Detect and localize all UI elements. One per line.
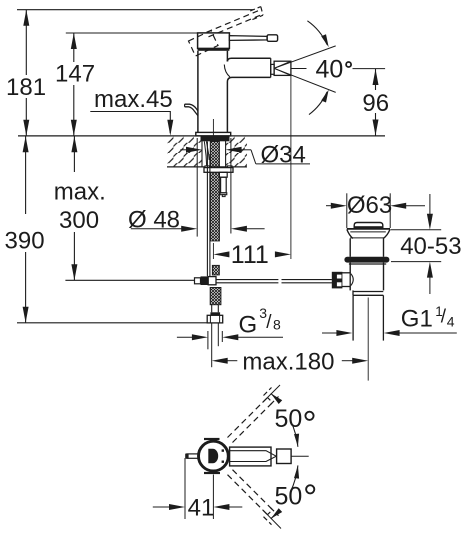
drain flange inner line 2 <box>350 237 383 239</box>
svg-text:4: 4 <box>447 314 455 330</box>
dimension 48 extension left <box>196 138 198 237</box>
drain under-ring shoulder <box>349 263 386 265</box>
tee block dark <box>201 276 209 285</box>
faucet cap base bar <box>198 48 230 51</box>
50 down arc arrowhead at line <box>271 508 282 519</box>
pop-up rod top right segment <box>282 279 332 281</box>
svg-text:/: / <box>266 312 272 333</box>
G114 tail left <box>322 332 342 334</box>
fixing stud top <box>219 172 227 177</box>
top view pop-up stub bottom <box>186 457 198 459</box>
supply hose right wall <box>209 154 211 276</box>
faucet centerline lower segment <box>212 243 214 259</box>
drain tailpipe right <box>382 295 384 340</box>
dimension 181 arrow up <box>23 10 29 26</box>
aerator cross line lower <box>274 68 291 75</box>
hose end nut <box>207 315 223 323</box>
50 down arc inner segment <box>290 465 298 492</box>
svg-text:147: 147 <box>55 61 95 88</box>
drain plug cap bottom band <box>354 226 383 228</box>
dashed knob 50 up a <box>264 388 272 396</box>
dia63 tail left <box>326 205 336 207</box>
40 deg arc lower arrowhead <box>321 90 329 103</box>
hose lower thread <box>210 288 221 305</box>
max180 arrow left <box>212 358 228 364</box>
dashed lever 50 down line A <box>228 475 268 515</box>
top view pop-up stub end <box>185 454 188 459</box>
top view pop-up stub top <box>186 453 198 455</box>
dimension 390 line lower <box>25 252 27 323</box>
drain body left lower <box>349 263 351 273</box>
dimension 181 line upper <box>25 10 27 75</box>
50 up arc arrowhead at lever <box>294 434 299 447</box>
svg-text:G: G <box>239 312 258 339</box>
top view flat bottom <box>204 472 220 474</box>
50 up arc inner segment <box>290 420 298 447</box>
hose upper nut <box>212 265 219 275</box>
dimension 96 arrow down <box>373 120 379 136</box>
dimension hole dia 34 tail left <box>180 149 191 151</box>
50 down arc arrowhead at lever <box>294 465 299 478</box>
dia34 leader bend <box>251 150 256 164</box>
hose end nut facet right <box>219 315 221 323</box>
G114 arrow left <box>336 330 352 336</box>
G114 tail right <box>395 332 457 334</box>
dimension 390 line upper <box>25 136 27 214</box>
dia63 tail right <box>401 205 425 207</box>
50 up arc arrowhead at line <box>271 393 282 404</box>
drain flange inner line 1 <box>350 231 386 233</box>
countertop bottom line <box>167 166 247 168</box>
faucet centerline <box>212 119 214 136</box>
dimension 390 arrow up <box>23 136 29 152</box>
dimension 96 line lower <box>375 113 377 136</box>
svg-text:max.: max. <box>54 179 106 206</box>
hose end nut facet left <box>209 315 211 323</box>
svg-text:181: 181 <box>6 74 46 101</box>
drain flange right curve <box>383 230 390 239</box>
threaded shank <box>210 142 219 241</box>
svg-text:40: 40 <box>316 55 344 83</box>
spray axis line <box>291 68 307 70</box>
hose lower pipe left <box>211 305 213 313</box>
dia63 arrow right <box>390 203 406 209</box>
hole right edge <box>225 136 227 167</box>
G38 extension left <box>207 331 209 349</box>
pipe below nut right <box>217 323 219 346</box>
dimension 48 extension right <box>230 138 232 234</box>
aerator step ring <box>271 64 274 74</box>
4053 arrow down <box>427 214 433 230</box>
drain plug cap <box>354 223 383 229</box>
dimension 48 arrow left <box>181 226 197 232</box>
svg-text:8: 8 <box>273 317 281 333</box>
faucet cap <box>198 33 230 49</box>
dimension max.300 arrow up <box>71 136 77 152</box>
spray line 20 deg up <box>274 46 336 68</box>
dashed lever knob end <box>261 7 263 16</box>
countertop hatch right <box>226 136 247 167</box>
drain flange left curve <box>347 230 353 239</box>
cartridge D shape <box>208 449 218 464</box>
top view lever centerline <box>291 455 309 457</box>
svg-text:Ø63: Ø63 <box>347 192 392 219</box>
svg-text:Ø34: Ø34 <box>261 142 306 169</box>
drain flange top <box>347 228 390 230</box>
G114 arrow right <box>384 330 400 336</box>
svg-text:96: 96 <box>362 90 389 117</box>
top view lever knob <box>277 449 292 464</box>
aerator cross line upper <box>274 61 291 68</box>
dimension 41 extension right <box>212 475 214 520</box>
hose curve in hole <box>204 141 209 167</box>
drain nut window upper <box>337 275 342 279</box>
reference line top of cap (147) <box>66 32 198 34</box>
40 deg arc upper arrowhead <box>321 34 329 47</box>
hole left edge <box>201 136 203 167</box>
dashed lever raised upper edge <box>207 11 259 33</box>
G38 tail left <box>177 336 197 338</box>
max180 arrow right <box>352 358 368 364</box>
faucet lever knob <box>267 35 278 42</box>
tee block white <box>208 277 216 285</box>
drain side port <box>339 273 351 287</box>
dimension 96 line upper <box>375 69 377 90</box>
dimension 147 arrow down <box>71 120 77 136</box>
dashed lever 50 down line B <box>233 470 273 510</box>
drain step line 1 <box>353 291 383 293</box>
reference line hose end (390) <box>17 322 207 324</box>
dimension 147 line lower <box>73 85 75 136</box>
dimension 390 arrow down <box>23 307 29 323</box>
dia63 extension right <box>389 193 391 228</box>
drain nut window lower <box>337 282 342 286</box>
pop-up rod bottom right segment <box>282 282 332 284</box>
dashed lever knob top <box>250 7 261 11</box>
dimension hole dia 34 arrow right <box>226 147 242 153</box>
dashed lever 50 down end <box>268 510 273 515</box>
50 up arc outer segment <box>271 393 278 400</box>
dimension max.300 line lower <box>73 232 75 280</box>
svg-text:41: 41 <box>188 495 215 522</box>
dimension 41 tail right <box>225 506 243 508</box>
dia63 arrow left <box>331 203 347 209</box>
4053 line bottom <box>429 274 431 294</box>
dimension 41 tail left <box>153 506 174 508</box>
G38 tail right <box>233 336 283 338</box>
pop-up hook inner <box>185 107 198 116</box>
degree sign 50 upper <box>305 412 313 420</box>
pop-up rod top left segment <box>216 279 278 281</box>
drain body right upper <box>383 238 385 256</box>
dimension hole dia 34 arrow left <box>186 147 202 153</box>
horseshoe washer tab left <box>205 166 210 168</box>
detail dot lower <box>222 461 224 463</box>
tee stub <box>195 278 201 284</box>
svg-text:Ø 48: Ø 48 <box>128 207 180 234</box>
dimension 181 line lower <box>25 98 27 136</box>
dimension 181 arrow down <box>23 120 29 136</box>
drain tailpipe left <box>352 295 354 340</box>
dimension 111 arrow left <box>213 251 229 257</box>
max.45 leader vertical <box>169 112 171 134</box>
drain step side left <box>352 290 354 295</box>
faucet lever bar <box>229 36 267 41</box>
faucet base plate <box>196 132 231 136</box>
dia63 extension left <box>346 193 348 228</box>
dimension max.300 arrow down <box>71 264 77 280</box>
spout end line <box>270 58 272 77</box>
dimension 41 arrow right <box>213 504 229 510</box>
countertop hatch left <box>167 136 202 167</box>
dimension hole dia 34 tail right <box>236 149 251 151</box>
degree sign 50 lower <box>306 485 314 493</box>
pop-up hook end cap <box>184 104 186 107</box>
drain o-ring <box>344 257 389 263</box>
dashed lever knob bottom <box>252 15 263 19</box>
max180 tail right <box>342 360 358 362</box>
dimension max.300 line upper <box>73 136 75 172</box>
svg-text:111: 111 <box>231 241 269 269</box>
spout top with fillet <box>227 58 270 61</box>
horseshoe washer <box>204 168 233 173</box>
reference line top of raised handle <box>17 9 253 11</box>
4053 ref line bottom <box>391 261 441 263</box>
dashed lever 50 up line A <box>228 398 268 438</box>
svg-text:390: 390 <box>5 228 45 255</box>
50 down arc outer segment <box>271 512 278 519</box>
pop-up rod bottom left segment <box>216 282 278 284</box>
dimension 41 arrow left <box>169 504 185 510</box>
dimension 48 tail left <box>131 228 186 230</box>
pop-up hook outer <box>185 104 198 111</box>
faucet body right edge upper <box>226 51 228 62</box>
4053 arrow up <box>427 262 433 278</box>
4053 ref line top <box>391 229 442 231</box>
pipe below nut left <box>211 323 213 367</box>
top view flat top <box>204 438 220 440</box>
drain body right lower <box>383 263 385 291</box>
solid 50 down line <box>263 510 282 529</box>
40 deg arc upper <box>307 21 327 45</box>
line right of 40 deg <box>353 68 386 70</box>
spout inner curve <box>224 65 230 78</box>
fixing stud body <box>221 177 227 193</box>
hose lower pipe right <box>217 305 219 313</box>
hose nut cap dark <box>210 312 220 315</box>
top view lever outline <box>230 447 271 466</box>
fixing stud washer <box>220 193 227 195</box>
dashed knob 50 down a <box>264 517 272 525</box>
dia34 label underline <box>256 163 310 165</box>
countertop top line <box>18 135 385 137</box>
dashed knob 50 down b <box>271 508 279 516</box>
dimension 96 arrow up <box>373 69 379 85</box>
max.45 arrow down <box>167 120 173 136</box>
dimension 111 arrow right <box>275 251 291 257</box>
drain body left upper <box>349 238 351 256</box>
drain rod knurled nut <box>332 272 343 289</box>
max.45 leader underline <box>90 111 171 113</box>
supply hose left wall <box>206 142 208 277</box>
drain body left below port <box>349 287 351 291</box>
spray line 20 deg down <box>274 68 336 92</box>
svg-text:50: 50 <box>275 405 303 433</box>
faucet shank top dark <box>201 136 230 142</box>
4053 line top <box>429 194 431 217</box>
dashed knob 50 up b <box>271 397 279 405</box>
40 deg arc lower <box>309 92 327 115</box>
dimension 147 line upper <box>73 33 75 62</box>
aerator block <box>274 61 291 75</box>
svg-text:max.180: max.180 <box>242 349 334 376</box>
drain step line 2 <box>353 294 383 296</box>
drain centerline <box>367 298 369 381</box>
svg-text:G1: G1 <box>401 306 433 333</box>
detail dot upper <box>222 449 224 451</box>
dashed lever 50 up end <box>268 398 273 403</box>
spout bottom <box>227 77 270 132</box>
dimension 41 extension left <box>184 458 186 519</box>
svg-text:40-53: 40-53 <box>400 233 461 260</box>
dashed cap raised position <box>189 31 219 57</box>
dashed lever 50 up line B <box>233 403 273 443</box>
top view lever inner bottom <box>230 456 277 461</box>
dashed lever raised lower edge <box>209 15 261 37</box>
top view body ring <box>199 441 229 471</box>
dimension 48 tail right <box>242 228 265 230</box>
svg-text:50: 50 <box>275 483 303 511</box>
drain seat curve <box>351 274 354 286</box>
faucet body left edge <box>197 51 199 133</box>
dimension 48 arrow right <box>231 226 247 232</box>
G38 arrow left <box>192 334 208 340</box>
horseshoe washer tab right <box>228 166 233 168</box>
svg-text:300: 300 <box>59 207 99 234</box>
max180 tail left <box>223 360 238 362</box>
G38 arrow right <box>222 334 238 340</box>
top view lever inner top <box>230 451 277 457</box>
reference line hose connector (max.300) <box>65 279 194 281</box>
G38 extension right <box>221 331 223 342</box>
degree sign of 40 <box>346 62 351 67</box>
fixing stud tip <box>222 195 225 197</box>
dimension 147 arrow up <box>71 33 77 49</box>
svg-text:max.45: max.45 <box>94 86 173 113</box>
aerator extension line <box>290 75 292 259</box>
solid 50 up line <box>263 385 281 403</box>
